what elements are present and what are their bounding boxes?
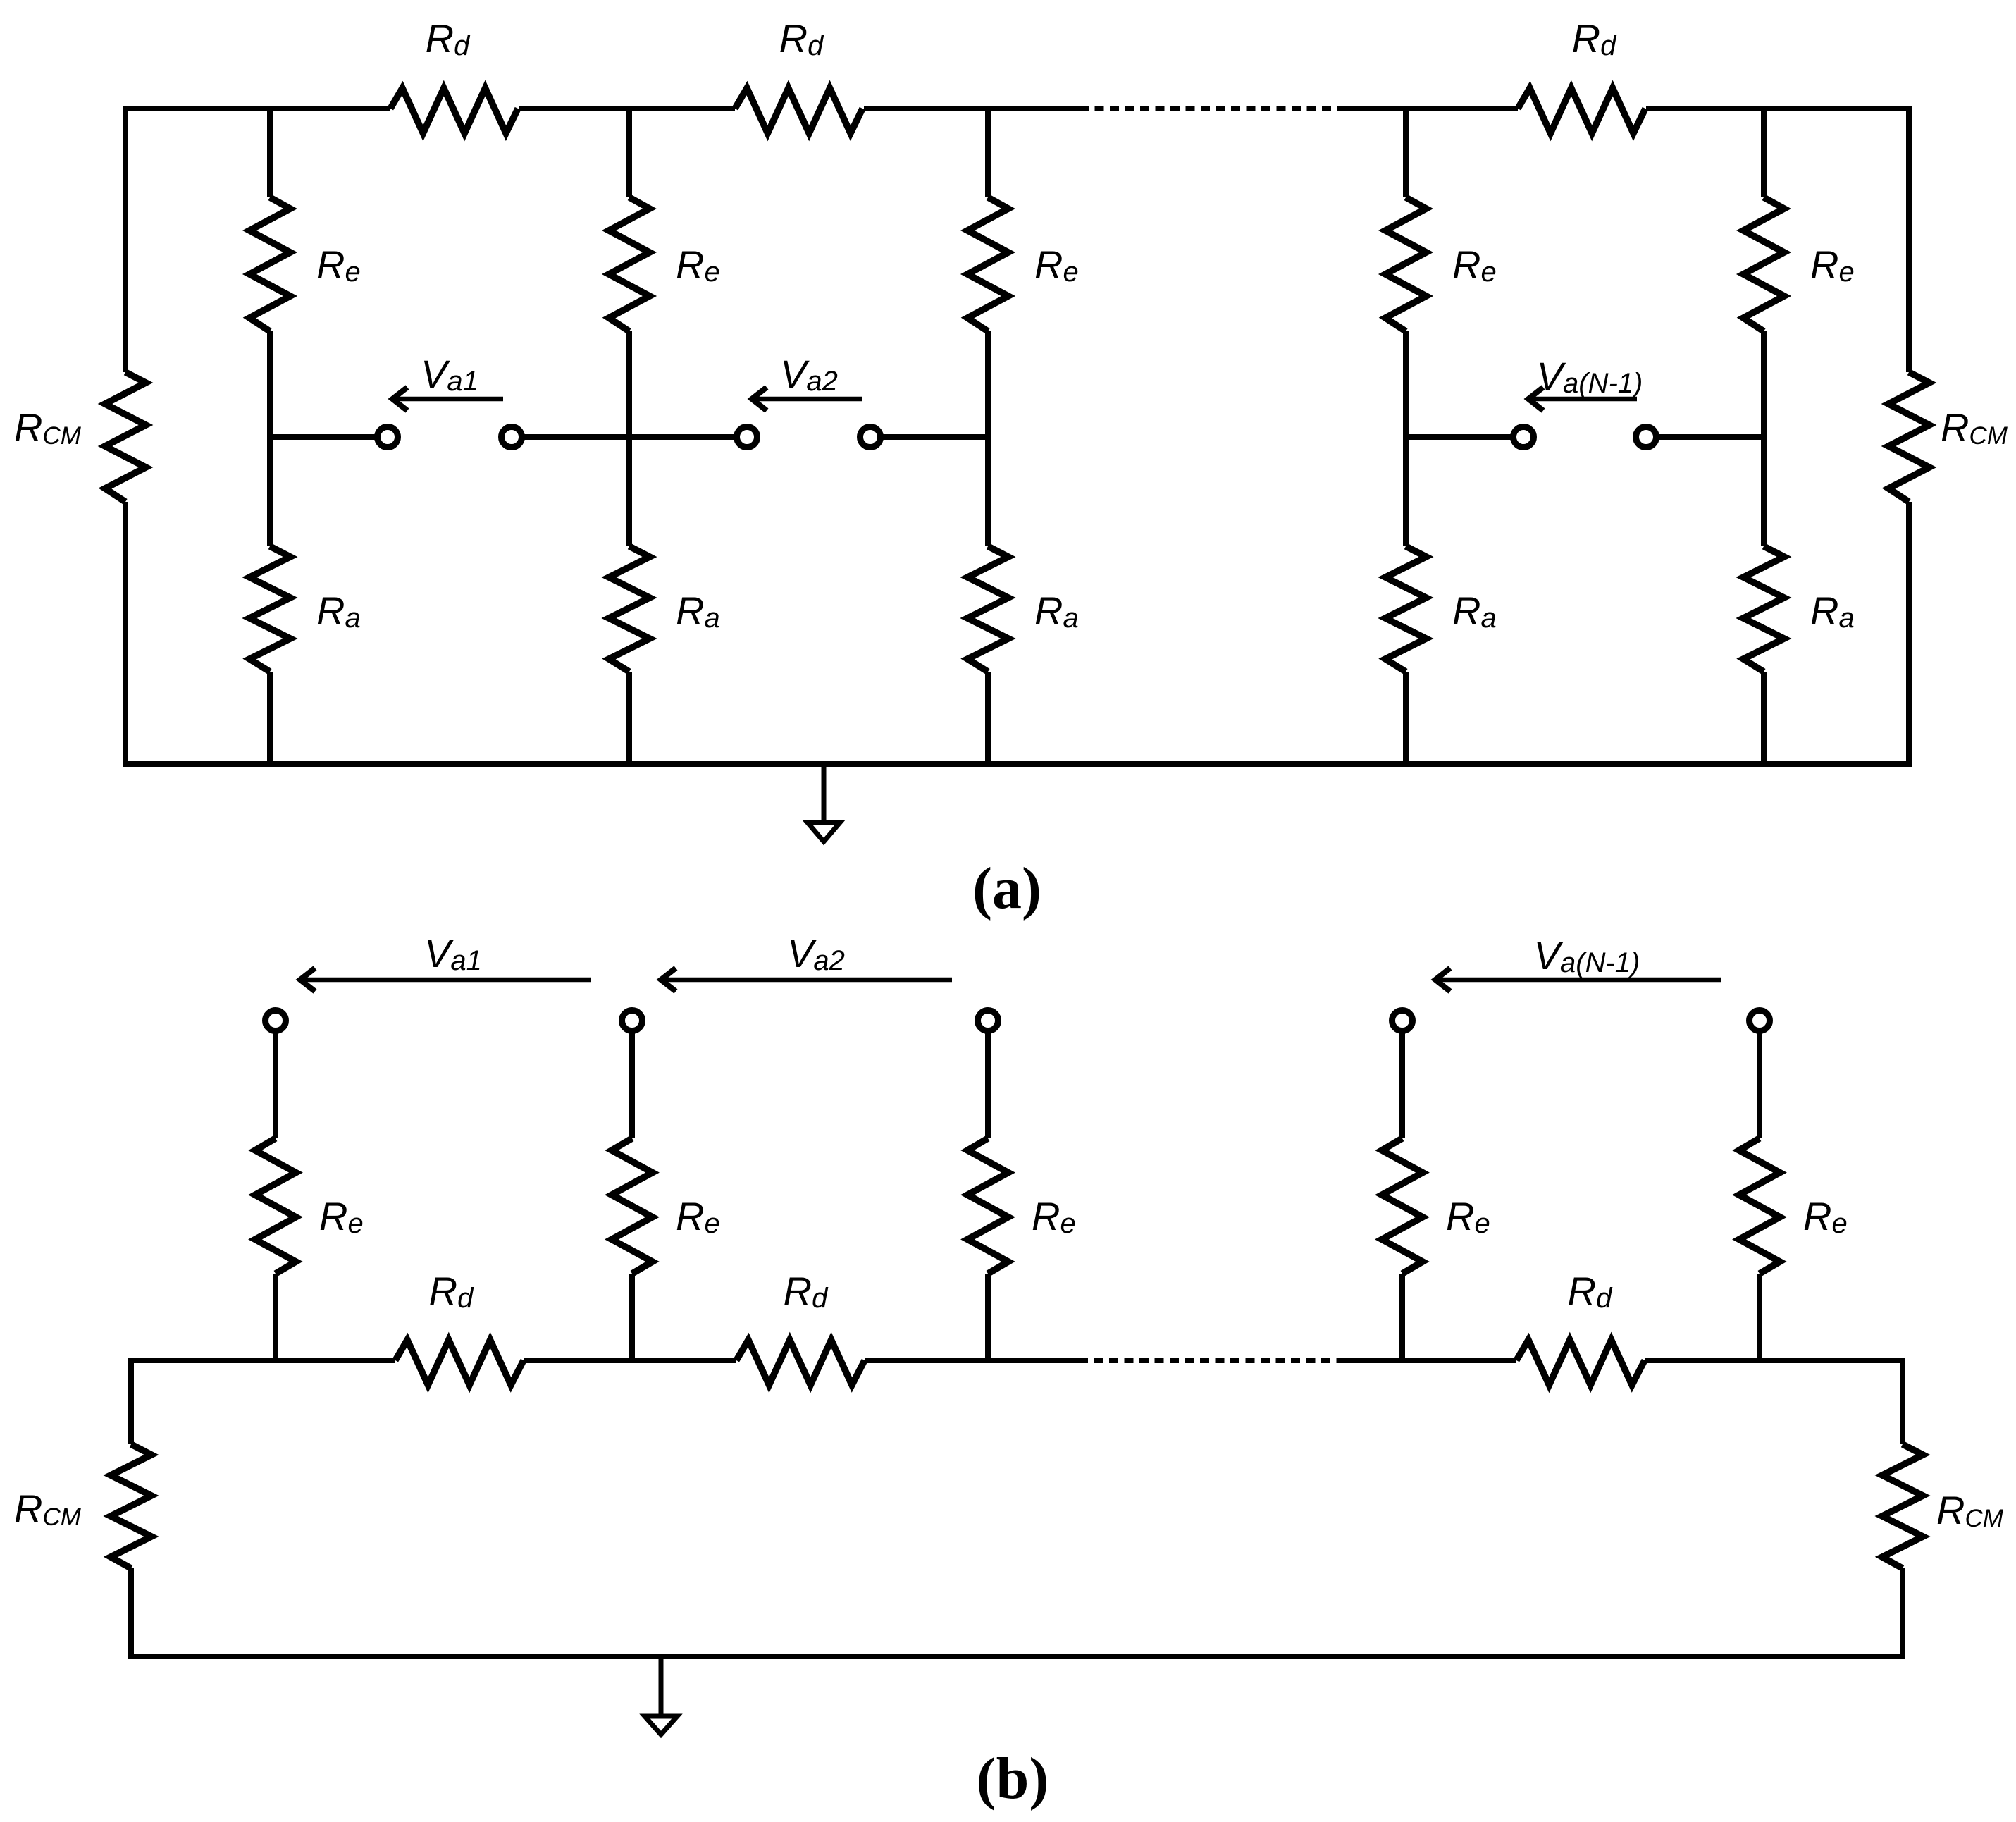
svg-text:(b): (b) xyxy=(977,1746,1049,1811)
svg-text:(a): (a) xyxy=(972,856,1041,921)
